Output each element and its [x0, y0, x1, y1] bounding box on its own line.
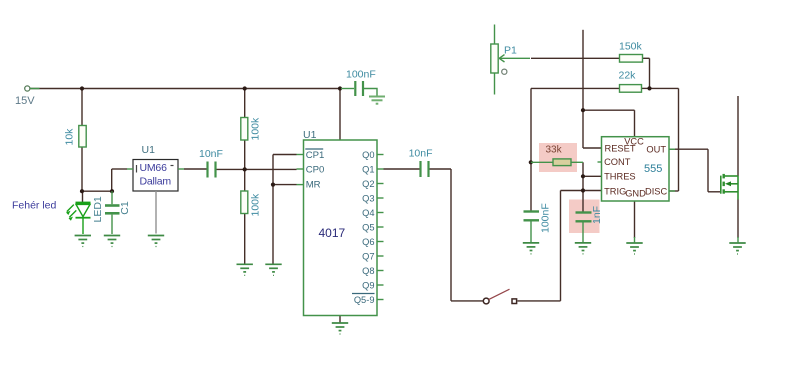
- svg-text:Q2: Q2: [362, 179, 374, 189]
- svg-text:4017: 4017: [319, 226, 346, 240]
- svg-text:MR: MR: [306, 180, 321, 191]
- svg-text:100k: 100k: [249, 193, 261, 217]
- svg-text:CP1: CP1: [306, 150, 325, 161]
- svg-text:OUT: OUT: [646, 145, 666, 155]
- svg-text:Q7: Q7: [362, 252, 374, 262]
- svg-text:UM66: UM66: [140, 162, 168, 174]
- svg-text:Fehér led: Fehér led: [12, 200, 57, 212]
- svg-text:22k: 22k: [619, 70, 637, 82]
- svg-text:CONT: CONT: [604, 157, 631, 167]
- svg-text:GND: GND: [625, 189, 646, 199]
- svg-text:10k: 10k: [63, 128, 75, 146]
- svg-text:Q4: Q4: [362, 208, 374, 218]
- svg-text:1nF: 1nF: [591, 206, 603, 224]
- svg-text:33k: 33k: [546, 145, 563, 156]
- svg-text:THRES: THRES: [604, 172, 636, 182]
- svg-text:CP0: CP0: [306, 165, 325, 176]
- svg-text:Q9: Q9: [362, 281, 374, 291]
- svg-text:Q0: Q0: [362, 150, 374, 160]
- svg-text:Q6: Q6: [362, 237, 374, 247]
- svg-text:U1: U1: [142, 144, 156, 156]
- svg-text:C1: C1: [119, 201, 131, 215]
- svg-text:100k: 100k: [249, 117, 261, 141]
- svg-text:LED1: LED1: [92, 196, 104, 222]
- svg-text:Q5: Q5: [362, 223, 374, 233]
- svg-text:RESET: RESET: [605, 144, 636, 154]
- svg-text:100nF: 100nF: [346, 69, 376, 81]
- svg-text:Q1: Q1: [362, 165, 374, 175]
- svg-text:15V: 15V: [15, 95, 35, 107]
- svg-text:150k: 150k: [619, 41, 643, 53]
- svg-text:Q5-9: Q5-9: [354, 295, 375, 305]
- svg-text:DISC: DISC: [645, 186, 667, 196]
- svg-text:10nF: 10nF: [199, 148, 223, 160]
- svg-text:Q8: Q8: [362, 266, 374, 276]
- svg-text:U1: U1: [303, 129, 317, 141]
- svg-text:555: 555: [644, 163, 662, 175]
- svg-text:10nF: 10nF: [409, 148, 433, 160]
- svg-text:100nF: 100nF: [540, 203, 552, 233]
- svg-text:Q3: Q3: [362, 194, 374, 204]
- svg-text:Dallam: Dallam: [140, 176, 172, 188]
- svg-text:TRIG: TRIG: [604, 186, 626, 196]
- svg-text:P1: P1: [504, 45, 517, 57]
